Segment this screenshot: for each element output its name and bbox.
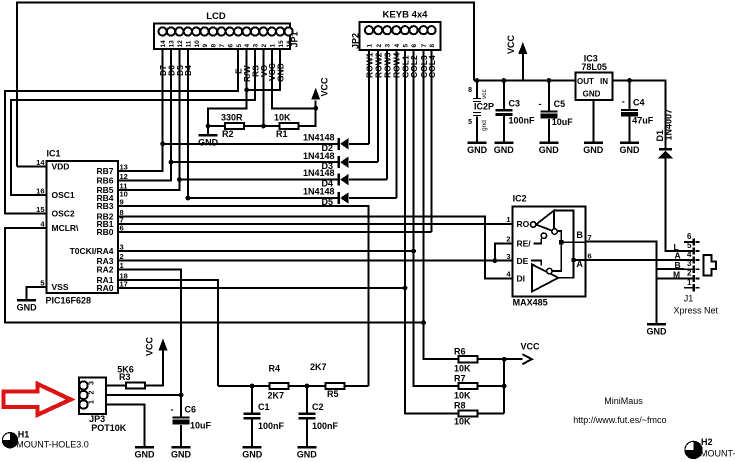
- pin 15 OSC2: [36, 205, 75, 219]
- svg-text:VSS: VSS: [52, 282, 69, 292]
- svg-text:100nF: 100nF: [258, 421, 285, 431]
- junction C1: [250, 384, 255, 389]
- pin 7 B: [576, 230, 591, 242]
- wire A internal: [554, 211, 586, 278]
- svg-text:6: 6: [411, 44, 418, 48]
- diode D2 1N4148: [337, 138, 348, 150]
- wire MAX485 RE tie: [495, 243, 513, 260]
- pin 16 OSC1: [36, 187, 75, 201]
- wire COL2: keyboard col2 to R7: [414, 50, 459, 386]
- svg-text:13: 13: [169, 40, 176, 48]
- diode D5 1N4148: [337, 192, 348, 204]
- junction RA0-COL1: [403, 286, 408, 291]
- svg-text:GND: GND: [494, 145, 515, 155]
- pin 1 RA2: [96, 261, 123, 275]
- svg-text:9: 9: [202, 44, 209, 48]
- svg-text:GND: GND: [539, 145, 560, 155]
- junction IC2P supply: [475, 78, 480, 83]
- junction C5: [546, 78, 551, 83]
- wire ROW2: [377, 50, 379, 162]
- svg-text:4: 4: [244, 44, 251, 48]
- svg-text:1: 1: [269, 44, 276, 48]
- wire diode D3 row: [171, 161, 378, 163]
- junction R7 vert: [502, 384, 507, 389]
- svg-text:JP1: JP1: [290, 31, 300, 47]
- svg-text:R1: R1: [276, 129, 288, 139]
- svg-text:JP2: JP2: [351, 33, 361, 49]
- wire JP3 pin1 to ground: [106, 405, 144, 447]
- svg-text:1: 1: [506, 215, 510, 224]
- pin 8 RB2: [96, 208, 123, 222]
- svg-text:1N4007: 1N4007: [664, 109, 674, 141]
- svg-text:OSC2: OSC2: [52, 209, 75, 219]
- resistor R8 10K: [459, 410, 478, 416]
- svg-text:C4: C4: [633, 97, 645, 107]
- svg-text:10uF: 10uF: [190, 421, 212, 431]
- resistor R4 2K7: [269, 383, 288, 389]
- svg-text:R2: R2: [222, 129, 234, 139]
- junction C3: [501, 78, 506, 83]
- svg-text:RB7: RB7: [96, 166, 113, 176]
- ground C5: [539, 143, 560, 155]
- pin 5 VSS: [40, 279, 69, 293]
- svg-text:78L05: 78L05: [581, 62, 607, 72]
- svg-text:15: 15: [36, 205, 44, 214]
- svg-text:100nF: 100nF: [312, 421, 339, 431]
- connector J1 jack symbol: [703, 255, 716, 275]
- svg-text:GND: GND: [467, 145, 488, 155]
- svg-text:GND: GND: [135, 449, 156, 459]
- ground IC2P: [467, 143, 488, 155]
- svg-text:gnd: gnd: [481, 120, 488, 131]
- svg-text:2: 2: [506, 235, 510, 244]
- op driver triangle: [532, 264, 558, 291]
- pin 2 RA3: [96, 252, 123, 266]
- junction R/W bus: [244, 87, 249, 92]
- pin 18 RA1: [96, 272, 127, 286]
- junction D4 cathode tap: [177, 177, 182, 182]
- svg-text:11: 11: [185, 40, 192, 47]
- svg-text:RO: RO: [517, 219, 530, 229]
- op RE bubble: [541, 233, 546, 238]
- svg-text:4: 4: [394, 44, 401, 48]
- svg-text:vcc: vcc: [481, 89, 488, 100]
- junction R6 vert: [502, 357, 507, 362]
- svg-text:RB3: RB3: [96, 201, 113, 211]
- svg-text:M: M: [673, 270, 680, 280]
- svg-text:8: 8: [429, 44, 436, 48]
- junction R2 left to GND: [206, 124, 211, 129]
- pin 17 RA0: [96, 280, 127, 294]
- wire VDD pin14: [17, 166, 46, 168]
- svg-text:PIC16F628: PIC16F628: [46, 295, 92, 305]
- wire filter row RA1-R4-R5-RB3: [218, 385, 369, 387]
- wire diode D4 row: [179, 179, 387, 181]
- op base bubble: [552, 229, 557, 234]
- ground under R2: [198, 135, 219, 147]
- supply VCC arrow bottom left: [158, 339, 167, 351]
- svg-text:1N4148: 1N4148: [303, 132, 335, 142]
- wire main VCC rail: [474, 80, 576, 82]
- resistor R5 2K7: [325, 383, 344, 389]
- pin 11 RB5: [96, 182, 127, 196]
- svg-text:1: 1: [687, 278, 692, 287]
- junction pot wiper C6: [179, 393, 184, 398]
- svg-text:1N4148: 1N4148: [303, 168, 335, 178]
- op IC2 box MAX485: [513, 207, 586, 297]
- wire RB3 to R5/R4 filter: [118, 206, 369, 386]
- wire RA2 to pot wiper and C6: [118, 270, 181, 417]
- wire diode D5 row: [188, 197, 396, 199]
- svg-text:1N4148: 1N4148: [303, 187, 335, 197]
- junction VCC stem T: [313, 106, 318, 111]
- svg-text:VDD: VDD: [52, 162, 70, 172]
- svg-text:C6: C6: [185, 405, 197, 415]
- junction B internal: [559, 240, 563, 244]
- svg-text:3: 3: [385, 44, 392, 48]
- ground C4: [620, 143, 641, 155]
- svg-text:C2: C2: [312, 402, 324, 412]
- svg-text:1: 1: [89, 400, 96, 404]
- diode D3 1N4148: [337, 156, 348, 168]
- ground C6: [171, 447, 192, 459]
- svg-text:GND: GND: [297, 449, 318, 459]
- op IC3 78L05 regulator: [576, 73, 613, 100]
- svg-text:GND: GND: [583, 145, 604, 155]
- svg-text:C3: C3: [509, 99, 521, 109]
- pin 14 VDD: [36, 158, 69, 172]
- wire DE step: [531, 261, 541, 266]
- svg-text:1N4148: 1N4148: [303, 151, 335, 161]
- wire IC3 ground pin: [592, 100, 594, 142]
- junction C4: [627, 78, 632, 83]
- ground VSS: [17, 300, 38, 312]
- pin 1 RO: [506, 215, 529, 229]
- svg-text:1: 1: [367, 44, 374, 48]
- svg-text:DI: DI: [517, 274, 526, 284]
- red highlight arrow: [4, 384, 71, 415]
- op IC1 box PIC16F628: [47, 161, 119, 293]
- wire MCLR to COL3 pullup bus: [5, 228, 424, 323]
- svg-text:A: A: [675, 251, 681, 261]
- junction D5 cathode tap: [185, 196, 190, 201]
- svg-text:D4: D4: [183, 65, 193, 76]
- pin 13 RB7: [96, 163, 127, 177]
- junction MCLR-COL3: [421, 320, 426, 325]
- connector JP3 POT10K: [79, 378, 106, 414]
- svg-text:6: 6: [588, 251, 592, 260]
- connector JP2 KEYB 4x4: [360, 22, 441, 50]
- svg-text:R5: R5: [327, 389, 339, 399]
- wire RB0 to COL4: [118, 231, 432, 233]
- wire COL4 to RB0: [431, 50, 433, 232]
- svg-text:LCD: LCD: [206, 11, 226, 22]
- pin 6 RB0: [96, 223, 123, 237]
- svg-text:VCC: VCC: [320, 77, 330, 97]
- wire RB2 to MAX485 DI: [118, 216, 513, 278]
- svg-text:GND: GND: [17, 302, 38, 312]
- wire LCD R/W + backlight tie: [247, 49, 281, 90]
- wire COL1: keyboard col1 to R8: [405, 50, 459, 414]
- wire RB4 net: LCD D4 down to pin10 row: [187, 49, 189, 198]
- svg-text:5: 5: [468, 119, 472, 126]
- resistor R7 10K: [459, 383, 478, 389]
- wire M J1 pin2 row: [657, 278, 685, 280]
- wire RA3 to MAX485 DE: [118, 260, 513, 262]
- wire pullup common to VCC: [478, 359, 523, 413]
- svg-text:VCC: VCC: [521, 342, 541, 352]
- svg-text:8: 8: [468, 87, 472, 94]
- mount hole H1: [2, 433, 17, 448]
- pin 2 RE: [506, 235, 531, 249]
- junction C2: [304, 384, 309, 389]
- svg-text:3: 3: [506, 252, 510, 261]
- connector J1 XpressNet: [684, 238, 700, 291]
- wire B internal: [552, 231, 585, 271]
- wire VCC top rail from IC1 VDD to 78L05 output rail: [17, 3, 474, 167]
- svg-text:-: -: [171, 405, 174, 415]
- wire ROW4: [395, 50, 397, 198]
- svg-text:GND: GND: [171, 449, 192, 459]
- svg-text:12: 12: [120, 172, 128, 181]
- capacitor C5 10uF: [540, 81, 557, 142]
- supply VCC arrow top middle: [311, 88, 320, 100]
- svg-text:GND: GND: [583, 89, 601, 98]
- svg-text:6: 6: [227, 44, 234, 48]
- svg-text:R4: R4: [269, 364, 281, 374]
- op receiver triangle: [536, 211, 554, 232]
- svg-text:H1: H1: [18, 429, 30, 439]
- op driver bubble: [547, 268, 552, 273]
- capacitor C6 10uF: [173, 417, 190, 447]
- svg-text:T0CKI/RA4: T0CKI/RA4: [70, 246, 114, 256]
- svg-text:16: 16: [36, 187, 44, 196]
- junction D2 cathode tap: [160, 141, 165, 146]
- pin 3 DE: [506, 252, 528, 266]
- capacitor C2 100nF: [298, 386, 315, 446]
- capacitor C4 47uF: [621, 81, 638, 142]
- svg-text:14: 14: [36, 158, 45, 167]
- svg-text:2: 2: [261, 44, 268, 48]
- pin 9 RB3: [96, 198, 123, 212]
- wire LCD RS to left bus y100 to OSC1: [11, 49, 255, 195]
- svg-text:GND: GND: [198, 137, 219, 147]
- wire diode D2 row: [163, 143, 369, 145]
- svg-text:8: 8: [211, 44, 218, 48]
- wire COL3: keyboard col3 to R6: [424, 50, 459, 359]
- junction A internal: [571, 258, 575, 262]
- svg-text:H2: H2: [701, 437, 713, 447]
- op IC2P power pins MAX485: [468, 81, 488, 142]
- svg-text:5: 5: [403, 44, 410, 48]
- diode D1 1N4007: [658, 148, 673, 158]
- svg-text:7: 7: [219, 44, 226, 48]
- junction RE-DE: [492, 258, 497, 263]
- wire RE step: [534, 238, 542, 243]
- wire LCD VO down to contrast divider: [262, 49, 264, 126]
- svg-text:C1: C1: [258, 402, 270, 412]
- ground C2: [297, 447, 318, 459]
- svg-text:3: 3: [89, 381, 96, 385]
- wire RB5 net: LCD D5 to IC1 pin11: [118, 49, 179, 190]
- wire D1 to J1 L pin: [665, 158, 684, 251]
- svg-text:MiniMaus: MiniMaus: [604, 396, 643, 406]
- op receiver output bubble: [531, 222, 536, 227]
- pin 7 RB1: [96, 216, 123, 230]
- svg-text:14: 14: [160, 40, 167, 48]
- resistor R2 330R: [225, 123, 244, 129]
- svg-text:KEYB 4x4: KEYB 4x4: [383, 9, 429, 20]
- svg-text:10: 10: [194, 40, 201, 48]
- ground JP3 pin1: [135, 447, 156, 459]
- svg-text:GND: GND: [647, 326, 668, 336]
- diode D4 1N4148: [337, 174, 348, 186]
- junction RA4-COL2: [411, 249, 416, 254]
- svg-text:RB0: RB0: [96, 227, 113, 237]
- svg-text:IC2: IC2: [513, 194, 527, 204]
- wire JP3 pin2 row: [106, 394, 181, 396]
- wire ROW3: [386, 50, 388, 180]
- svg-text:10K: 10K: [274, 113, 291, 123]
- svg-text:MAX485: MAX485: [513, 298, 548, 308]
- wire LCD VCC down to VCC stem: [272, 49, 316, 108]
- svg-text:R3: R3: [119, 372, 131, 382]
- pin 12 RB6: [96, 172, 127, 186]
- svg-text:OSC1: OSC1: [52, 190, 75, 200]
- svg-text:IC1: IC1: [47, 149, 61, 159]
- svg-text:http://www.fut.es/~fmco: http://www.fut.es/~fmco: [573, 415, 666, 425]
- pin 10 RB4: [96, 190, 127, 204]
- svg-text:13: 13: [120, 163, 128, 172]
- wire LCD R/W down to GND bus: [208, 49, 247, 126]
- wire ROW1: [368, 50, 370, 144]
- wire RA1 to R4: [118, 280, 218, 386]
- svg-text:2K7: 2K7: [268, 391, 285, 401]
- svg-text:MOUNT-: MOUNT-: [700, 448, 735, 458]
- supply VCC arrow right: [522, 354, 531, 364]
- svg-text:R6: R6: [454, 347, 466, 357]
- mount hole H2: [685, 441, 702, 458]
- svg-text:10uF: 10uF: [552, 117, 574, 127]
- resistor R1 10K: [280, 123, 299, 129]
- svg-text:2K7: 2K7: [310, 362, 327, 372]
- svg-text:-: -: [539, 99, 542, 109]
- svg-text:B: B: [675, 260, 681, 270]
- svg-text:C5: C5: [554, 99, 566, 109]
- junction VO-contrast: [261, 124, 266, 129]
- svg-text:330R: 330R: [221, 113, 243, 123]
- connector JP1 LCD: [154, 24, 293, 49]
- ground C1: [242, 447, 263, 459]
- wire JP3 pin3 to R3: [106, 385, 126, 387]
- svg-text:GND: GND: [242, 449, 263, 459]
- svg-text:4: 4: [687, 250, 692, 259]
- svg-text:RB6: RB6: [96, 176, 113, 186]
- svg-text:2: 2: [687, 269, 692, 278]
- wire R2 left to GND stem: [207, 126, 209, 135]
- wire VSS to ground: [27, 287, 47, 300]
- svg-text:GND: GND: [620, 145, 641, 155]
- wire RA4 to COL2: [118, 250, 414, 252]
- pin 4 MCLR\: [40, 220, 79, 234]
- svg-text:IN: IN: [600, 77, 608, 86]
- svg-text:DE: DE: [517, 256, 529, 266]
- wire R3 to VCC: [145, 350, 163, 386]
- svg-text:100nF: 100nF: [509, 115, 536, 125]
- resistor R3 5K6: [126, 382, 145, 388]
- svg-text:R8: R8: [454, 401, 466, 411]
- wire RB1 to MAX485 RO: [118, 223, 513, 225]
- ground C3: [494, 143, 515, 155]
- ground IC3: [583, 143, 604, 155]
- junction D3 cathode tap: [169, 160, 174, 165]
- wire RB7 net: LCD D7 to IC1 pin13 and diode D2: [118, 49, 163, 171]
- svg-text:-: -: [622, 96, 625, 106]
- pin 4 DI: [506, 270, 525, 284]
- svg-text:IC2P: IC2P: [474, 101, 494, 111]
- ground M wire: [647, 324, 668, 336]
- svg-text:RA2: RA2: [96, 265, 113, 275]
- svg-text:R7: R7: [454, 373, 466, 383]
- svg-text:VCC: VCC: [506, 34, 516, 54]
- svg-text:2: 2: [89, 391, 96, 395]
- wire J1 pin3 row: [657, 268, 685, 270]
- svg-text:47uF: 47uF: [632, 116, 654, 126]
- svg-text:RE/: RE/: [517, 239, 532, 249]
- svg-text:MCLR\: MCLR\: [52, 223, 80, 233]
- svg-text:5: 5: [687, 241, 692, 250]
- svg-text:A: A: [576, 259, 583, 269]
- svg-text:B: B: [576, 230, 583, 240]
- svg-text:MOUNT-HOLE3.0: MOUNT-HOLE3.0: [16, 439, 89, 449]
- svg-text:15: 15: [278, 40, 285, 48]
- svg-text:12: 12: [177, 40, 184, 48]
- wire A to J1 pin4: [586, 259, 685, 261]
- svg-text:J1: J1: [684, 294, 694, 304]
- svg-text:RA0: RA0: [96, 283, 113, 293]
- svg-text:3: 3: [687, 259, 692, 268]
- wire contrast row: [208, 101, 316, 126]
- svg-text:3: 3: [253, 44, 260, 48]
- svg-text:GND: GND: [276, 63, 286, 82]
- pin 6 A: [576, 251, 591, 269]
- svg-text:Xpress Net: Xpress Net: [674, 305, 719, 315]
- capacitor C1 100nF: [244, 386, 261, 446]
- svg-text:10K: 10K: [454, 363, 471, 373]
- wire LCD E to left bus y91 to OSC2: [5, 49, 238, 214]
- wire RB6 net: LCD D6 to IC1 pin12: [118, 49, 171, 181]
- svg-text:5: 5: [236, 44, 243, 48]
- supply VCC arrow top right: [518, 42, 527, 54]
- svg-text:VCC: VCC: [145, 336, 155, 356]
- svg-text:6: 6: [687, 232, 692, 241]
- svg-text:10K: 10K: [454, 417, 471, 427]
- wire RA0 to COL1: [118, 287, 405, 289]
- svg-text:POT10K: POT10K: [91, 423, 127, 433]
- svg-text:7: 7: [421, 44, 428, 48]
- resistor R6 10K: [459, 356, 478, 362]
- capacitor C3 100nF: [495, 81, 512, 142]
- wire rail IC3 to D1: [612, 81, 665, 149]
- svg-text:2: 2: [376, 44, 383, 48]
- pin 3 T0CKI/RA4: [70, 243, 124, 257]
- svg-text:10K: 10K: [454, 390, 471, 400]
- svg-text:OUT: OUT: [577, 77, 594, 86]
- wire B to J1 pin3: [586, 242, 657, 325]
